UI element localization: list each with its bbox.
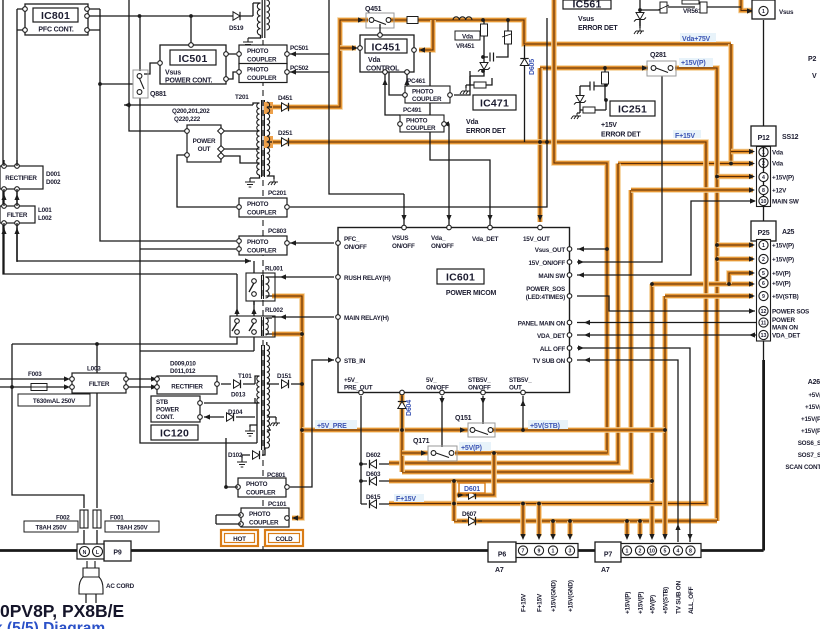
fuse F003 [31,384,47,391]
arrowheads [245,258,251,263]
svg-text:VR451: VR451 [456,43,475,50]
wire 15V_ON/OFF to Q281 base [577,76,662,262]
svg-text:1: 1 [552,549,555,555]
svg-text:5: 5 [664,549,667,555]
wire orange row P25 pin6 [652,281,753,287]
label +5V_PRE [315,420,357,429]
wire D151 row [271,383,302,385]
svg-text:PC491: PC491 [403,107,422,114]
svg-text:IC501: IC501 [178,53,207,65]
wire Q451 to IC451 top [379,29,381,35]
svg-text:PHOTO: PHOTO [247,67,269,74]
svg-text:+15V(P): +15V(P) [772,175,794,182]
svg-text:ON/OFF: ON/OFF [431,243,454,250]
wire RL002 switch bottoms [12,337,254,351]
svg-text:D607: D607 [462,511,477,518]
svg-text:Vda: Vda [772,161,784,168]
wire PC491 to Vda_ON/OFF riser [437,124,449,225]
svg-text:RECTIFIER: RECTIFIER [171,384,203,391]
svg-text:10: 10 [761,199,767,205]
wire PC502 feed from x329 [290,71,329,73]
diode D251 [282,138,289,146]
svg-text:MAIN ON: MAIN ON [772,325,799,332]
svg-text:13: 13 [761,333,767,339]
wire D602 D603 D615 outputs [379,464,389,504]
label +5V(P) Q171 [459,442,491,451]
resistor R561 [700,2,707,13]
wire D604 vertical link [401,396,403,430]
label +15V(P) Q281 [679,58,713,67]
chassis ground T101 right [270,420,280,426]
wire orange IC451 supply stub right [419,20,433,50]
wire orange branch P12 pin1 Vda [731,149,753,155]
connector P12 box [751,126,776,146]
svg-text:STB: STB [156,399,169,406]
svg-text:IC451: IC451 [371,42,400,54]
svg-text:ON/OFF: ON/OFF [468,385,491,392]
svg-text:COUPLER: COUPLER [406,125,436,132]
wire POWER OUT right pins to T201 [223,131,253,163]
wire orange +5V_PRE rail RL001/RL002 coils trunk to PC101 [272,296,302,518]
wire orange row P12 pin2 Vda from x618 [618,161,753,167]
svg-text:F003: F003 [28,371,42,378]
svg-text:OUT: OUT [198,146,211,153]
wire STB box pin to T101 tap [204,402,255,404]
svg-text:P9: P9 [113,550,121,557]
wire PC101 left stubs [216,438,241,524]
svg-text:POWER CONT.: POWER CONT. [165,78,212,85]
wire Vsus_OUT stub black to trunk [577,248,607,250]
svg-text:ON/OFF: ON/OFF [426,385,449,392]
wire orange Vsus vertical x554 to trunk x607 down to +5V(P) row [495,0,607,453]
wire orange D615/D607 connector x454 [451,481,457,521]
wire V12 fuse branch [12,344,84,508]
svg-text:STB5V_: STB5V_ [509,377,532,384]
svg-text:V: V [812,73,817,80]
op-amp IC501 Vsus power controller block [160,45,226,84]
svg-text:T201: T201 [235,94,249,101]
diode D601 [469,491,476,499]
thick chassis border line [0,360,764,551]
block FILTER L003 [72,373,126,393]
svg-text:9: 9 [538,549,541,555]
svg-text:PC501: PC501 [290,45,309,52]
wire RUSH RELAY(H) row [272,276,334,278]
ground T201 left [245,178,255,187]
svg-text:Vsus: Vsus [779,9,794,16]
svg-text:+5V(P): +5V(P) [772,271,791,278]
svg-text:RECTIFIER: RECTIFIER [5,175,37,182]
wire D607 row black parts [462,520,482,522]
wire VDA_DET to P25 pin13 [577,334,756,336]
svg-text:PHOTO: PHOTO [412,89,434,96]
wire STB5V_OUT drop [522,396,524,430]
label +5V(STB) Q151 [528,420,568,429]
diode D013 [234,380,241,388]
svg-text:D102: D102 [228,452,243,459]
label D601 boxed [459,483,485,493]
connector P9 block [104,541,131,561]
svg-text:AC CORD: AC CORD [106,583,135,590]
svg-text:COLD: COLD [275,536,293,543]
wire IC801 left pins rail x17 down to RL001 row [17,9,251,261]
svg-text:PHOTO: PHOTO [249,511,271,518]
wire orange Vda trunk [728,44,734,164]
op-amp IC471 Vda error det block [473,95,516,110]
diode D604 [398,402,406,409]
wire RECTIFIER to D013 to T101 [221,383,255,385]
wire vertical x140 Q881 to RL002 bottom rail [140,98,257,443]
block POWER OUT Q200s [187,125,221,162]
wire IC801 right rail x100 down to PC803 [87,9,236,241]
wire orange trunk x618 Vda row to D602 row [389,164,618,464]
ground T101 [245,427,255,436]
svg-text:+5V_: +5V_ [344,377,359,384]
svg-text:MAIN SW: MAIN SW [772,199,799,206]
svg-text:A25: A25 [782,229,795,236]
diode D605 [520,59,528,66]
label F+15V right [673,130,701,138]
svg-text:IC561: IC561 [572,0,601,11]
connector P25 box [751,221,776,241]
wire RL001 switch bottom to RL002 [253,301,255,316]
wire PC501 feed from x329 [290,53,329,55]
svg-text:COUPLER: COUPLER [247,247,277,254]
label HOT box [221,530,258,546]
resistor R471 and chassis ground [470,76,474,85]
block STB POWER CONT [151,396,200,422]
svg-text:Vda: Vda [466,119,479,126]
wire orange drop P7 pin2 [637,521,643,534]
connector P12 pin column body [757,147,771,207]
block RECTIFIER D009-D012 [157,376,217,394]
svg-text:Vda: Vda [462,33,474,40]
wire orange trunk x665 +5V(STB) P25 pin9 to P7 pin5 [662,296,668,534]
svg-text:Q200,201,202: Q200,201,202 [172,108,210,115]
wire orange Q171 feed stub [402,450,428,456]
AC CORD plug [87,561,95,568]
svg-text:T630mAL 250V: T630mAL 250V [33,398,76,405]
svg-text:COUPLER: COUPLER [246,489,276,496]
op-amp IC561 Vsus error det block [563,0,611,9]
svg-text:VSUS: VSUS [392,235,408,242]
svg-text:IC471: IC471 [480,98,509,110]
svg-text:PHOTO: PHOTO [247,239,269,246]
wire orange drop P6 pin7 F+15V [520,504,526,537]
svg-text:8: 8 [762,188,765,194]
svg-text:6: 6 [762,281,765,287]
wire STB_IN feed [290,360,334,487]
svg-text:HOT: HOT [233,536,246,543]
IC601 left pins [336,241,341,246]
wire F001 line x97 [96,344,98,508]
svg-text:MAIN RELAY(H): MAIN RELAY(H) [344,315,389,322]
svg-text:VDA_DET: VDA_DET [772,333,800,340]
svg-text:D013: D013 [231,392,246,399]
wire F003 upper rail [0,378,68,380]
connector P7 block [595,542,621,562]
svg-text:D001: D001 [46,171,61,178]
svg-text:D151: D151 [277,373,292,380]
transistor Q881 [133,70,148,98]
wire IC501 top pin drop [190,16,192,43]
svg-text:FILTER: FILTER [89,381,110,388]
variable resistor VR451 with Vda label [455,31,480,40]
svg-text:Vda: Vda [368,57,381,64]
relay RL001 [246,273,275,301]
diode D615 [370,500,377,508]
svg-text:Vda+75V: Vda+75V [682,36,711,43]
svg-text:PHOTO: PHOTO [247,201,269,208]
svg-text:0PV8P, PX8B/E: 0PV8P, PX8B/E [0,601,124,621]
transformer T101 right winding [267,345,270,448]
svg-text:N: N [83,550,87,556]
svg-text:ON/OFF: ON/OFF [392,243,415,250]
svg-text:MAIN SW: MAIN SW [538,273,565,280]
svg-text:P6: P6 [498,552,506,559]
wire left border vertical x3 [3,0,237,274]
label COLD box [265,530,303,546]
svg-text:RL002: RL002 [265,307,284,314]
svg-text:D604: D604 [406,400,413,416]
svg-text:POWER: POWER [156,407,179,414]
wire orange branch P12 pin4 +15V(P) [717,174,753,180]
svg-text:IC120: IC120 [160,428,189,440]
diode D519 [232,15,236,17]
wire POWER SOS to P25 pin12 [577,296,755,311]
wire orange Q171 +5V(P) output [455,450,607,456]
wire orange +5V_PRE to Q151 [302,427,468,433]
svg-text:4: 4 [677,549,680,555]
svg-text:PC803: PC803 [268,228,287,235]
svg-text:7: 7 [522,549,525,555]
svg-text:+12V: +12V [772,188,787,195]
fuse F001 [93,510,101,528]
svg-text:IC601: IC601 [446,272,475,284]
wire vertical x129 to POWER OUT [129,0,185,131]
svg-text:PHOTO: PHOTO [406,118,428,125]
svg-text:STB5V_: STB5V_ [468,377,491,384]
svg-text:+15V(P: +15V(P [801,428,820,435]
svg-text:SCAN CONT: SCAN CONT [785,464,820,471]
wire orange row P12 pin8 +12V [631,187,753,193]
inductor L451 top rail [453,17,472,20]
svg-text:COUPLER: COUPLER [247,209,277,216]
wire PC481 left to IC451 [389,58,405,95]
op-amp IC801 PFC controller block [25,4,88,35]
svg-text:F+15V: F+15V [537,593,544,612]
svg-text:PANEL MAIN ON: PANEL MAIN ON [518,321,566,328]
svg-text:Vda: Vda [772,150,784,157]
svg-text:F+15V: F+15V [675,133,695,140]
isolation boundary dashed line HOT/COLD [262,40,264,529]
op-amp IC251 +15V error det block [610,101,655,116]
svg-text:1: 1 [762,243,765,249]
svg-text:Q171: Q171 [413,438,430,445]
diode D602 [370,460,377,468]
svg-text:Vda_: Vda_ [431,235,446,242]
svg-text:D009,010: D009,010 [170,361,196,368]
svg-text:TV SUB ON: TV SUB ON [533,358,566,365]
wire orange D607 +15V row [454,518,717,524]
svg-text:Vsus: Vsus [165,70,181,77]
svg-text:D615: D615 [366,494,381,501]
svg-text:9: 9 [762,294,765,300]
svg-text:D451: D451 [278,95,293,102]
chassis ground T201 right [268,179,278,185]
svg-text:+15V(P): +15V(P) [681,60,705,67]
IC601 right pins [567,247,572,252]
wire P12 pin10 to P25 [763,206,765,221]
wire orange jog P25 pin5 [729,273,753,284]
svg-text:IC251: IC251 [618,104,647,116]
svg-text:k (5/5) Diagram: k (5/5) Diagram [0,620,105,629]
svg-text:ERROR DET: ERROR DET [578,25,618,32]
wire orange IC451 supply stub left [340,45,356,51]
wire orange D603 row to trunk x652 [389,478,652,484]
wire 5V_ON/OFF drop to Q171 [441,396,443,447]
svg-text:F+15V: F+15V [396,496,416,503]
wire fuse outputs to P9 [84,530,97,544]
svg-text:PFC_: PFC_ [344,236,360,243]
block RECTIFIER D001 D002 top left [0,166,43,189]
svg-text:POWER MICOM: POWER MICOM [446,290,497,297]
svg-text:F002: F002 [56,515,70,522]
svg-text:A7: A7 [495,567,504,574]
svg-text:SOS7_S: SOS7_S [798,452,820,459]
junction dots [138,14,142,18]
svg-text:D602: D602 [366,452,381,459]
wire PC481 to IC471 node [454,71,470,95]
ground IC561 [634,28,644,34]
wire T201 drive row y105 [124,104,253,106]
svg-text:+5V(: +5V( [808,392,820,399]
svg-text:POWER: POWER [772,317,795,324]
wire POWER OUT bottom pin to PC201 [177,155,236,207]
svg-text:5: 5 [762,271,765,277]
svg-text:P25: P25 [758,230,770,237]
wire Vda_DET riser x490 [430,52,490,225]
svg-text:PFC CONT.: PFC CONT. [38,27,73,34]
diode D451 [282,103,289,111]
svg-text:+5V(P): +5V(P) [461,445,482,452]
diode D603 [370,477,377,485]
wire orange +5V(STB) Q151 output [493,427,665,433]
wire +5V_PRE_OUT drop to D602/D603/D615 anodes [361,396,367,504]
svg-text:RL001: RL001 [265,266,284,273]
svg-text:ON/OFF: ON/OFF [344,244,367,251]
svg-text:11: 11 [761,321,767,327]
svg-text:A26: A26 [808,379,820,386]
svg-text:P12: P12 [758,135,770,142]
svg-text:P7: P7 [604,552,612,559]
svg-text:ALL OFF: ALL OFF [540,346,565,353]
op-amp IC451 Vda control block [360,35,414,72]
wire orange trunk x631 +12V P12 pin8 row to D604 row [402,190,631,472]
svg-text:+15V(P): +15V(P) [625,592,632,614]
diode D607 [469,517,476,525]
resistor R251 and ground [583,107,595,113]
svg-text:F001: F001 [110,515,124,522]
svg-text:TV SUB ON: TV SUB ON [676,580,683,614]
svg-text:15V_ON/OFF: 15V_ON/OFF [529,260,566,267]
wire orange branch P25 pin2 +15V(P) [717,256,753,262]
wire MAIN SW net P12 pin10 to IC601 [577,201,755,275]
op-amp IC601 POWER MICOM block [338,228,570,393]
wire D605 branch x526 [524,45,526,142]
svg-text:VR561: VR561 [683,8,702,15]
transformer T201 right winding [267,102,270,176]
svg-text:FILTER: FILTER [7,212,28,219]
wire D601 diode row black parts [466,494,468,496]
svg-text:SOS6_S: SOS6_S [798,440,820,447]
svg-text:STB_IN: STB_IN [344,358,366,365]
wire orange drop P6 pin1 +15V(GND) [550,521,556,536]
diode D151 [282,380,289,388]
svg-text:+15V(GND): +15V(GND) [568,580,575,612]
svg-text:POWER: POWER [193,138,216,145]
svg-text:+5V(P): +5V(P) [772,281,791,288]
svg-text:+5V(STB): +5V(STB) [772,294,799,301]
svg-text:+15V(P): +15V(P) [638,592,645,614]
wire orange D601 row with riser to +5V(P) [454,453,494,495]
wire VR561 to Vsus node [668,6,741,8]
svg-text:D519: D519 [229,25,244,32]
svg-text:L003: L003 [87,366,101,373]
fuse F002 [80,510,88,528]
wire ALL OFF to P7 pin8 [577,348,690,542]
svg-text:T8AH 250V: T8AH 250V [116,525,148,532]
svg-text:2: 2 [639,549,642,555]
svg-text:+15V(P): +15V(P) [772,243,794,250]
svg-text:4: 4 [762,175,765,181]
svg-text:ERROR DET: ERROR DET [601,132,641,139]
svg-text:POWER SOS: POWER SOS [772,309,809,316]
transformer T201 core [262,100,265,177]
label F+15V left [394,494,424,502]
label Vda+75V [680,33,716,42]
svg-text:PC101: PC101 [268,501,287,508]
svg-text:D603: D603 [366,471,381,478]
svg-text:COUPLER: COUPLER [247,75,277,82]
block IC120 label box [151,425,198,440]
svg-text:ALL_OFF: ALL_OFF [688,586,695,614]
wire vertical x329 from top [329,0,404,194]
svg-text:POWER_SOS: POWER_SOS [526,286,565,293]
svg-text:5V_: 5V_ [426,377,437,384]
wire V237 to RL002 left switch [236,274,238,316]
svg-text:OUT: OUT [509,385,522,392]
svg-text:3: 3 [569,549,572,555]
svg-text:Q881: Q881 [150,91,167,98]
svg-text:PHOTO: PHOTO [246,481,268,488]
capacitor C251 [580,85,606,87]
svg-text:+5V(STB): +5V(STB) [530,423,560,430]
svg-text:+5V(STB): +5V(STB) [663,587,670,614]
svg-text:COUPLER: COUPLER [412,96,442,103]
wire TV SUB ON to P7 pin4 [577,360,678,542]
svg-text:2: 2 [762,257,765,263]
svg-text:PHOTO: PHOTO [247,48,269,55]
wire STB5V_ON/OFF drop to Q151 [482,396,484,424]
svg-text:1: 1 [762,9,765,15]
connector Vsus pin top right [752,0,775,19]
wires rectifier-filter left stack [4,189,17,262]
svg-text:D104: D104 [228,409,243,416]
wire orange drop P6 pin3 +15V(GND) [567,521,573,536]
svg-text:CONT.: CONT. [156,414,174,421]
svg-text:+15V(: +15V( [805,404,820,411]
